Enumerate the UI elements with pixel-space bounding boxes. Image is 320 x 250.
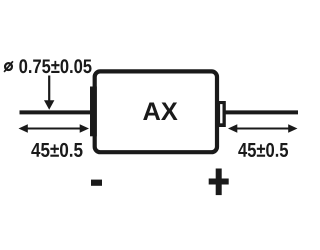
positive-end seal tab xyxy=(217,101,226,127)
right lead wire xyxy=(224,110,298,114)
negative-end crimp bar xyxy=(90,87,97,137)
lead diameter label: o 0.75+/-0.05 xyxy=(4,61,13,72)
label AX xyxy=(143,103,177,120)
right lead length label: 45+/-0.5 xyxy=(238,143,288,157)
diameter pointer arrow xyxy=(44,76,54,110)
negative polarity mark xyxy=(91,180,102,186)
left dimension arrow xyxy=(19,124,90,132)
positive polarity mark xyxy=(209,169,229,196)
left lead wire xyxy=(20,110,94,114)
left lead length label: 45+/-0.5 xyxy=(31,143,82,157)
capacitor body outline xyxy=(95,71,217,152)
right dimension arrow xyxy=(228,124,298,132)
